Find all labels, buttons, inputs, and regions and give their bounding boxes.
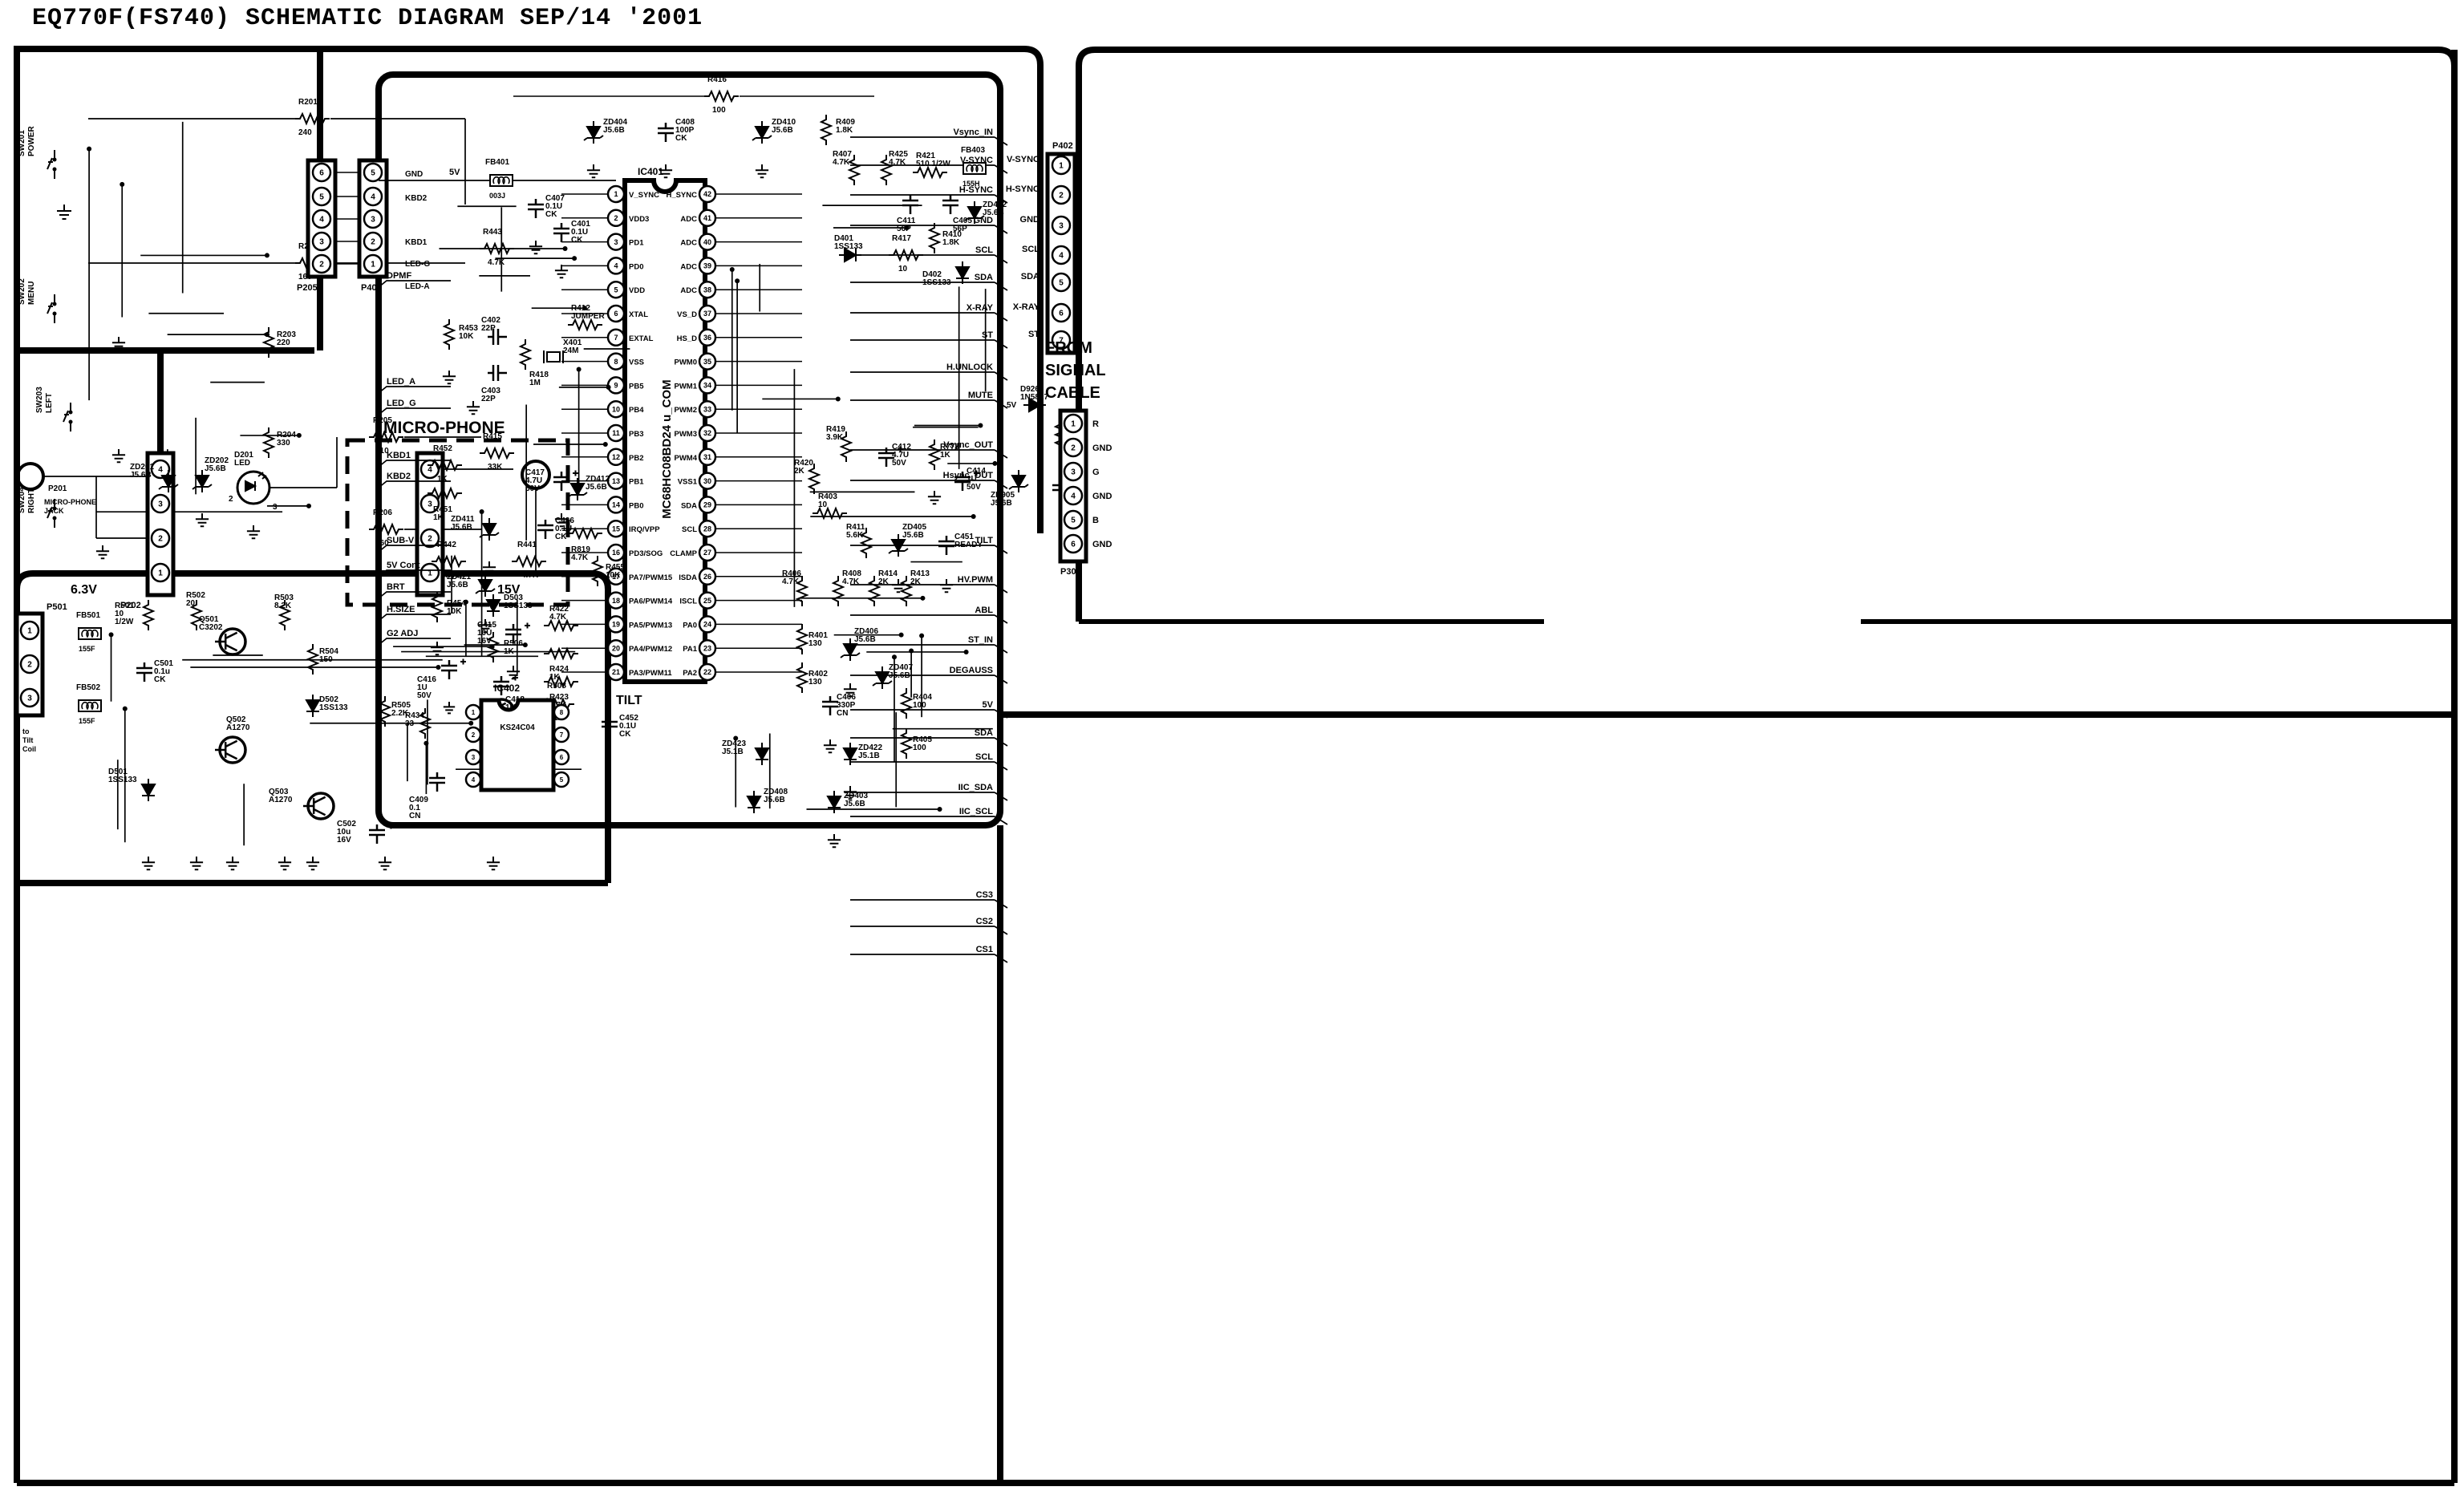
svg-text:50V: 50V bbox=[967, 483, 981, 492]
svg-text:PA0: PA0 bbox=[683, 621, 697, 630]
svg-text:R441: R441 bbox=[517, 541, 537, 549]
IC401 pin 7 EXTAL bbox=[608, 330, 624, 346]
capacitor C436 0.1U bbox=[537, 520, 553, 539]
zener ZD905 capacitor C934 bbox=[1012, 470, 1025, 492]
svg-text:H_SYNC: H_SYNC bbox=[666, 191, 697, 200]
svg-text:2: 2 bbox=[319, 261, 324, 269]
diode D501 1SS133 bbox=[142, 779, 155, 801]
svg-text:R452: R452 bbox=[433, 444, 452, 453]
capacitors C411 C405 56P bbox=[902, 195, 918, 214]
wire: kb wiring bbox=[168, 334, 267, 335]
svg-text:ADC: ADC bbox=[680, 286, 697, 295]
diode D401 1SS133 bbox=[839, 249, 861, 261]
svg-text:LED-A: LED-A bbox=[405, 282, 430, 291]
svg-text:220: 220 bbox=[277, 338, 290, 347]
ferrite bead FB403 155H bbox=[963, 163, 986, 174]
svg-text:7: 7 bbox=[560, 731, 564, 739]
svg-text:11: 11 bbox=[612, 429, 620, 437]
zener ZD422 J5.1B bbox=[844, 743, 857, 765]
svg-text:IIC_SCL: IIC_SCL bbox=[959, 807, 993, 816]
svg-text:PB4: PB4 bbox=[629, 406, 644, 415]
svg-text:130: 130 bbox=[808, 678, 822, 687]
resistor R203 220 bbox=[264, 327, 274, 358]
svg-text:4.7K: 4.7K bbox=[488, 258, 505, 267]
svg-text:3: 3 bbox=[614, 238, 618, 246]
IC401 pin 13 PB1 bbox=[608, 473, 624, 489]
svg-text:VSS1: VSS1 bbox=[678, 478, 698, 487]
svg-text:B: B bbox=[1092, 516, 1099, 525]
capacitor C417 4.7U 50V bbox=[553, 472, 569, 491]
resistor R501 10 1/2W bbox=[144, 600, 153, 630]
IC401 pin 40 ADC bbox=[699, 234, 715, 250]
svg-text:CABLE: CABLE bbox=[1045, 384, 1100, 402]
zener ZD421 J5.6B bbox=[479, 574, 492, 597]
svg-text:CN: CN bbox=[409, 812, 420, 820]
svg-text:18: 18 bbox=[612, 597, 620, 605]
svg-text:ISCL: ISCL bbox=[679, 598, 697, 606]
resistor R508 1K bbox=[540, 699, 574, 709]
IC402 EEPROM KS24C04 bbox=[481, 700, 553, 790]
IC401 pin 1 V_SYNC bbox=[608, 186, 624, 202]
svg-text:SDA: SDA bbox=[1021, 272, 1039, 282]
svg-text:42: 42 bbox=[703, 190, 711, 198]
diode D502 1SS133 bbox=[306, 695, 319, 717]
svg-text:J5.6B: J5.6B bbox=[854, 635, 876, 644]
resistor cluster right of IC401: R419 R420 R403 R411 ZD405 C451 C412 R778 C414 bbox=[841, 431, 851, 462]
svg-text:IIC_SDA: IIC_SDA bbox=[958, 783, 993, 792]
svg-text:G: G bbox=[1092, 468, 1100, 477]
svg-text:CS1: CS1 bbox=[976, 945, 993, 954]
IC401 microcontroller MC68HC08BD24 body bbox=[625, 180, 705, 682]
svg-text:MC68HC08BD24 u_COM: MC68HC08BD24 u_COM bbox=[660, 379, 674, 518]
svg-text:10K: 10K bbox=[606, 571, 621, 580]
svg-text:13: 13 bbox=[612, 477, 620, 485]
svg-text:J5.6B: J5.6B bbox=[447, 581, 468, 589]
svg-text:R201: R201 bbox=[298, 98, 318, 107]
resistor R205 510 bbox=[369, 432, 403, 442]
transistor Q501 C3202 bbox=[220, 629, 245, 654]
svg-text:Coil: Coil bbox=[22, 745, 36, 753]
svg-text:J5.6B: J5.6B bbox=[205, 464, 226, 473]
switch SW201 POWER bbox=[54, 150, 55, 179]
svg-text:16V: 16V bbox=[337, 836, 351, 845]
svg-text:SCL: SCL bbox=[1022, 245, 1039, 254]
IC401 pin 11 PB3 bbox=[608, 425, 624, 441]
wire: video block bottom border bbox=[1079, 619, 2454, 624]
svg-text:GND: GND bbox=[405, 170, 423, 179]
svg-text:PWM3: PWM3 bbox=[675, 430, 698, 439]
svg-text:5: 5 bbox=[319, 193, 324, 202]
svg-text:22P: 22P bbox=[481, 324, 496, 333]
resistors R407 R425 4.7K bbox=[849, 155, 859, 185]
svg-text:CK: CK bbox=[571, 236, 583, 245]
svg-text:3: 3 bbox=[472, 754, 476, 761]
svg-text:LEFT: LEFT bbox=[45, 393, 54, 413]
svg-text:21: 21 bbox=[612, 668, 620, 676]
svg-text:1M: 1M bbox=[529, 379, 541, 387]
micro-phone dashed block bbox=[347, 440, 568, 605]
ground bbox=[112, 449, 125, 462]
svg-text:36: 36 bbox=[703, 334, 711, 342]
svg-text:5: 5 bbox=[560, 776, 564, 784]
component row top of u-COM: C407 bbox=[528, 199, 544, 218]
svg-text:P402: P402 bbox=[1052, 141, 1073, 151]
wire: P202 vertical bus bbox=[157, 350, 164, 576]
svg-text:1: 1 bbox=[472, 709, 476, 716]
svg-text:J5.6B: J5.6B bbox=[991, 499, 1012, 508]
svg-text:3: 3 bbox=[273, 503, 278, 512]
resistor R453 10K bbox=[444, 319, 454, 350]
svg-text:31: 31 bbox=[703, 453, 711, 461]
IC401 pin 3 PD1 bbox=[608, 234, 624, 250]
IC401 pin 18 PA6/PWM14 bbox=[608, 593, 624, 609]
svg-text:2K: 2K bbox=[794, 467, 805, 476]
ferrite bead FB502 155F bbox=[79, 700, 101, 711]
IC401 pin 22 PA2 bbox=[699, 664, 715, 680]
IC401 pin 9 PB5 bbox=[608, 377, 624, 393]
svg-text:37: 37 bbox=[703, 310, 711, 318]
svg-text:3: 3 bbox=[1071, 468, 1076, 477]
svg-text:41: 41 bbox=[703, 214, 711, 222]
svg-text:VDD3: VDD3 bbox=[629, 215, 649, 224]
capacitors C416 C418 1U 50V bbox=[441, 660, 457, 679]
svg-text:H-SYNC: H-SYNC bbox=[1006, 184, 1039, 194]
svg-text:PA2: PA2 bbox=[683, 669, 697, 678]
svg-text:27: 27 bbox=[703, 549, 711, 557]
svg-text:8: 8 bbox=[614, 358, 618, 366]
IC401 pin 27 CLAMP bbox=[699, 545, 715, 561]
zener ZD411 J5.6B bbox=[483, 518, 496, 541]
svg-text:2: 2 bbox=[1059, 192, 1064, 201]
svg-text:10: 10 bbox=[612, 405, 620, 413]
svg-text:50V: 50V bbox=[525, 484, 540, 493]
IC401 pin 25 ISCL bbox=[699, 593, 715, 609]
svg-text:J5.6B: J5.6B bbox=[983, 209, 1004, 217]
svg-text:6: 6 bbox=[560, 754, 564, 761]
svg-text:SCL: SCL bbox=[975, 752, 993, 762]
svg-text:H.SIZE: H.SIZE bbox=[387, 605, 415, 614]
svg-text:P405: P405 bbox=[361, 283, 382, 293]
svg-text:LED: LED bbox=[234, 459, 250, 468]
svg-text:4: 4 bbox=[1059, 252, 1064, 261]
IC401 pin 37 VS_D bbox=[699, 306, 715, 322]
resistor R452 1K bbox=[428, 460, 462, 470]
wire: video block left border bbox=[1076, 66, 1082, 622]
svg-text:10: 10 bbox=[898, 265, 908, 273]
svg-text:3: 3 bbox=[27, 695, 32, 703]
svg-text:ST_IN: ST_IN bbox=[968, 635, 993, 645]
zener ZD412 J5.6B bbox=[571, 478, 584, 500]
resistor R442 4.7K bbox=[432, 557, 466, 566]
IC401 pin 2 VDD3 bbox=[608, 210, 624, 226]
svg-text:PB5: PB5 bbox=[629, 382, 644, 391]
zener ZD410 J5.6B bbox=[756, 121, 768, 144]
connector P501 bbox=[17, 614, 43, 715]
svg-text:4.7K: 4.7K bbox=[833, 158, 850, 167]
wire: page bottom border bbox=[17, 1480, 2454, 1486]
resistor R421 510 1/2W bbox=[913, 168, 947, 177]
svg-text:14: 14 bbox=[612, 501, 620, 509]
wire: IC401 left pin wires bbox=[561, 193, 608, 195]
transistor Q504 C3198 bbox=[488, 699, 514, 725]
svg-text:4: 4 bbox=[1071, 492, 1076, 501]
svg-text:R415: R415 bbox=[483, 432, 502, 441]
svg-text:4: 4 bbox=[371, 193, 375, 202]
svg-text:G2 ADJ: G2 ADJ bbox=[387, 629, 418, 638]
svg-text:ADC: ADC bbox=[680, 262, 697, 271]
svg-text:2: 2 bbox=[229, 495, 233, 504]
svg-text:100: 100 bbox=[712, 106, 726, 115]
svg-text:3: 3 bbox=[319, 238, 324, 247]
svg-text:READY: READY bbox=[954, 541, 983, 549]
svg-text:CS2: CS2 bbox=[976, 917, 993, 926]
svg-text:J5.6B: J5.6B bbox=[764, 796, 785, 804]
svg-text:R206: R206 bbox=[373, 508, 392, 517]
IC401 pin 35 PWM0 bbox=[699, 354, 715, 370]
resistor R454 10K bbox=[432, 592, 442, 622]
svg-text:24: 24 bbox=[703, 621, 711, 629]
microphone capsule bbox=[522, 461, 549, 488]
svg-text:PD0: PD0 bbox=[629, 262, 643, 271]
video block top border bbox=[1079, 50, 2454, 66]
svg-text:ISDA: ISDA bbox=[679, 573, 697, 582]
capacitor C452 0.1 bbox=[602, 716, 618, 735]
IC401 pin 14 PB0 bbox=[608, 496, 624, 512]
svg-text:6: 6 bbox=[1071, 541, 1076, 549]
svg-text:6: 6 bbox=[319, 169, 324, 178]
svg-text:4: 4 bbox=[614, 262, 618, 270]
svg-text:PD3/SOG: PD3/SOG bbox=[629, 549, 663, 558]
svg-text:SW202: SW202 bbox=[18, 278, 26, 305]
svg-text:R: R bbox=[1092, 419, 1099, 429]
resistor R409 1.8K bbox=[821, 115, 831, 145]
svg-text:KBD1: KBD1 bbox=[405, 238, 428, 247]
resistor R204 330 bbox=[264, 427, 274, 458]
svg-text:FROM: FROM bbox=[1045, 339, 1092, 357]
ground bbox=[57, 205, 71, 219]
svg-text:1/2W: 1/2W bbox=[115, 618, 134, 626]
svg-text:PA7/PWM15: PA7/PWM15 bbox=[629, 573, 673, 582]
IC402 pin 7 bbox=[554, 727, 569, 742]
ground bbox=[112, 337, 125, 350]
svg-text:CK: CK bbox=[619, 730, 631, 739]
svg-text:SUB-V: SUB-V bbox=[387, 536, 415, 545]
svg-text:4.7K: 4.7K bbox=[549, 613, 567, 622]
svg-text:1.8K: 1.8K bbox=[942, 238, 960, 247]
svg-text:1: 1 bbox=[27, 627, 32, 636]
ferrite bead FB501 155F bbox=[79, 628, 101, 639]
IC401 pin 30 VSS1 bbox=[699, 473, 715, 489]
svg-text:RIGHT: RIGHT bbox=[27, 488, 36, 513]
svg-text:3: 3 bbox=[428, 500, 432, 509]
transistor Q502 A1270 bbox=[220, 737, 245, 763]
svg-text:VDD: VDD bbox=[629, 286, 645, 295]
svg-text:10K: 10K bbox=[459, 332, 474, 341]
svg-text:5V Cont: 5V Cont bbox=[387, 561, 420, 570]
resistor R819 4.7K bbox=[568, 529, 602, 538]
svg-text:5.6K: 5.6K bbox=[846, 531, 864, 540]
transistor Q503 A1270 bbox=[308, 793, 334, 819]
svg-text:R442: R442 bbox=[437, 541, 456, 549]
wire: page left border bbox=[14, 46, 20, 1483]
capacitor C401 0.1U CK bbox=[553, 223, 569, 242]
svg-text:1: 1 bbox=[158, 569, 163, 578]
svg-text:1K: 1K bbox=[940, 451, 951, 460]
svg-text:FB501: FB501 bbox=[76, 611, 100, 620]
svg-text:CS3: CS3 bbox=[976, 890, 993, 900]
svg-text:8.2K: 8.2K bbox=[274, 602, 292, 610]
svg-text:40: 40 bbox=[703, 238, 711, 246]
svg-text:8: 8 bbox=[560, 709, 564, 716]
svg-text:CN: CN bbox=[837, 709, 848, 718]
ground bbox=[247, 525, 260, 538]
svg-text:EXTAL: EXTAL bbox=[629, 334, 654, 343]
svg-text:FB502: FB502 bbox=[76, 683, 100, 692]
switch SW203 LEFT bbox=[70, 403, 71, 431]
svg-text:50V: 50V bbox=[892, 459, 906, 468]
microphone jack P201 bbox=[18, 464, 43, 489]
svg-text:6.3V: 6.3V bbox=[71, 583, 97, 597]
svg-text:22P: 22P bbox=[481, 395, 496, 403]
IC401 pin 42 H_SYNC bbox=[699, 186, 715, 202]
svg-text:IC402: IC402 bbox=[494, 683, 520, 694]
micro-controller block border IC401 region bbox=[379, 75, 1000, 825]
resistor R418 1M bbox=[521, 339, 530, 370]
wire: deflection block top border bbox=[1000, 711, 2454, 718]
svg-text:38: 38 bbox=[703, 286, 711, 294]
svg-text:12: 12 bbox=[612, 453, 620, 461]
IC401 pin 33 PWM2 bbox=[699, 401, 715, 417]
IC401 pin 32 PWM3 bbox=[699, 425, 715, 441]
IC401 pin 8 VSS bbox=[608, 354, 624, 370]
wire: main vertical divider bbox=[997, 825, 1003, 1483]
svg-text:GND: GND bbox=[1092, 492, 1112, 501]
svg-text:EQ770F(FS740) SCHEMATIC DIAGRA: EQ770F(FS740) SCHEMATIC DIAGRAM SEP/14 '… bbox=[32, 5, 703, 32]
svg-text:HV.PWM: HV.PWM bbox=[958, 575, 993, 585]
svg-text:X-RAY: X-RAY bbox=[967, 303, 994, 313]
svg-text:155H: 155H bbox=[962, 180, 980, 188]
svg-text:PA1: PA1 bbox=[683, 645, 697, 654]
svg-text:PA3/PWM11: PA3/PWM11 bbox=[629, 669, 672, 678]
capacitors C402 C403 22P bbox=[488, 329, 507, 345]
connector P205 bbox=[308, 160, 335, 277]
svg-text:XTAL: XTAL bbox=[629, 310, 648, 319]
zener ZD202 J5.6B bbox=[196, 470, 209, 492]
IC402 pin 2 bbox=[466, 727, 480, 742]
resistor R504 150 bbox=[308, 644, 318, 674]
svg-text:26: 26 bbox=[703, 573, 711, 581]
svg-text:1SS133: 1SS133 bbox=[834, 242, 863, 251]
svg-text:5: 5 bbox=[614, 286, 618, 294]
svg-text:DPMF: DPMF bbox=[387, 271, 411, 281]
IC401 pin 6 XTAL bbox=[608, 306, 624, 322]
svg-text:34: 34 bbox=[703, 382, 711, 390]
resistor R443 4.7K bbox=[480, 244, 514, 253]
svg-text:to: to bbox=[22, 727, 30, 735]
svg-text:PWM0: PWM0 bbox=[675, 359, 698, 367]
svg-text:2K: 2K bbox=[910, 577, 922, 586]
IC401 pin 36 HS_D bbox=[699, 330, 715, 346]
svg-text:5V: 5V bbox=[983, 700, 994, 710]
svg-text:19: 19 bbox=[612, 621, 620, 629]
zener ZD423 J5.1B bbox=[756, 743, 768, 765]
diode D402 1SS133 bbox=[956, 261, 969, 284]
svg-text:3.9K: 3.9K bbox=[826, 433, 844, 442]
svg-text:2: 2 bbox=[158, 535, 163, 544]
IC401 pin 23 PA1 bbox=[699, 640, 715, 656]
resistor R506 1K bbox=[488, 632, 498, 662]
svg-text:20: 20 bbox=[186, 599, 196, 608]
svg-text:TILT: TILT bbox=[616, 694, 642, 707]
IC401 pin 17 PA7/PWM15 bbox=[608, 569, 624, 585]
crystal X401 24M bbox=[547, 352, 560, 362]
svg-text:5: 5 bbox=[1059, 279, 1064, 288]
svg-text:KBD2: KBD2 bbox=[387, 472, 411, 481]
svg-text:P205: P205 bbox=[297, 283, 318, 293]
svg-text:GND: GND bbox=[1020, 215, 1040, 225]
svg-text:22: 22 bbox=[703, 668, 711, 676]
svg-text:PD1: PD1 bbox=[629, 239, 644, 248]
svg-text:C3202: C3202 bbox=[199, 623, 223, 632]
svg-text:2: 2 bbox=[428, 535, 432, 544]
svg-text:20: 20 bbox=[612, 644, 620, 652]
svg-text:X-RAY: X-RAY bbox=[1013, 302, 1040, 312]
svg-text:J5.6B: J5.6B bbox=[844, 800, 865, 808]
IC402 pin 3 bbox=[466, 750, 480, 764]
svg-text:2: 2 bbox=[614, 214, 618, 222]
svg-text:1: 1 bbox=[371, 261, 375, 269]
connector P405 bbox=[359, 160, 387, 277]
svg-text:J5.1B: J5.1B bbox=[858, 751, 880, 760]
resistor R434 33 bbox=[420, 708, 430, 739]
svg-text:P301: P301 bbox=[1060, 567, 1081, 577]
switch SW202 MENU bbox=[54, 294, 55, 323]
svg-text:IC401: IC401 bbox=[638, 166, 663, 177]
IC401 pin 24 PA0 bbox=[699, 616, 715, 632]
svg-text:SW201: SW201 bbox=[18, 130, 26, 156]
wire: u-COM internal wiring bbox=[439, 248, 565, 249]
svg-text:003J: 003J bbox=[489, 192, 505, 200]
svg-text:R417: R417 bbox=[892, 234, 911, 243]
svg-text:ADC: ADC bbox=[680, 215, 697, 224]
IC401 pin 31 PWM4 bbox=[699, 449, 715, 465]
svg-text:MUTE: MUTE bbox=[968, 391, 993, 400]
svg-text:10K: 10K bbox=[447, 607, 462, 616]
svg-text:130: 130 bbox=[808, 639, 822, 648]
svg-text:FB403: FB403 bbox=[961, 146, 985, 155]
resistors R422 R424 R423 bbox=[544, 621, 578, 630]
svg-text:J5.6B: J5.6B bbox=[772, 126, 793, 135]
svg-text:155F: 155F bbox=[79, 717, 95, 725]
svg-text:LED-G: LED-G bbox=[405, 260, 430, 269]
svg-text:240: 240 bbox=[298, 128, 312, 137]
wire: page right border bbox=[2451, 50, 2458, 1483]
svg-text:IRQ/VPP: IRQ/VPP bbox=[629, 525, 660, 534]
svg-text:PWM4: PWM4 bbox=[675, 454, 698, 463]
svg-text:33K: 33K bbox=[488, 463, 503, 472]
svg-text:KBD2: KBD2 bbox=[405, 194, 428, 203]
resistor R665 100K bbox=[1056, 419, 1065, 450]
left mid block border 6.3V/15V tilt section bbox=[17, 573, 608, 883]
svg-text:50V: 50V bbox=[417, 691, 432, 700]
wire: page left border lower bbox=[14, 883, 20, 1483]
svg-text:155F: 155F bbox=[79, 645, 95, 653]
resistor R416 100 bbox=[704, 91, 739, 101]
capacitor C502 10u 16V bbox=[369, 824, 385, 844]
svg-text:23: 23 bbox=[703, 644, 711, 652]
svg-text:ABL: ABL bbox=[975, 606, 993, 615]
capacitor C501 0.1u CK bbox=[136, 662, 152, 682]
